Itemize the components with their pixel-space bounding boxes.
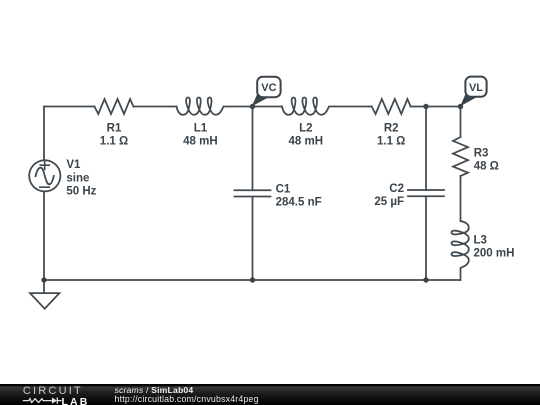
wire V1 top vertical (43, 107, 45, 161)
wire L2 to R2 (330, 106, 372, 108)
voltage source V1 (29, 160, 60, 191)
svg-text:VL: VL (469, 82, 483, 94)
logo wire with resistor and diode (0, 384, 100, 405)
svg-text:1.1 Ω: 1.1 Ω (377, 136, 405, 148)
svg-text:VC: VC (261, 82, 276, 94)
svg-text:284.5 nF: 284.5 nF (276, 197, 322, 209)
svg-text:L2: L2 (299, 122, 312, 134)
svg-text:25 µF: 25 µF (374, 196, 404, 208)
wire R2 to VL node (411, 106, 461, 108)
wire C2 to bottom (425, 196, 427, 280)
wire VL node down to R3 (460, 107, 462, 138)
node VL junction dot (458, 104, 463, 109)
CircuitLab logo LAB (62, 396, 90, 405)
ground junction dot (41, 277, 46, 282)
svg-text:1.1 Ω: 1.1 Ω (100, 136, 128, 148)
capacitor C2 (408, 190, 444, 196)
resistor R2 (372, 99, 411, 114)
flag VL (460, 77, 486, 107)
CircuitLab logo text CIRCUIT (23, 385, 83, 397)
junction dot C2 bottom (423, 277, 428, 282)
inductor L2 (282, 98, 329, 115)
logo diode (52, 397, 57, 403)
wire bottom horizontal (44, 279, 461, 281)
inductor L1 (177, 98, 224, 115)
ground (43, 280, 45, 293)
svg-text:L3: L3 (474, 234, 487, 246)
svg-text:48 mH: 48 mH (183, 136, 218, 148)
capacitor C1 (235, 190, 271, 196)
svg-text:48 Ω: 48 Ω (474, 161, 499, 173)
junction dot C1 bottom (250, 277, 255, 282)
node VC junction dot (250, 104, 255, 109)
wire R1 to L1 (133, 106, 176, 108)
svg-text:R3: R3 (474, 147, 489, 159)
svg-text:sine: sine (66, 172, 89, 184)
resistor R1 (94, 99, 133, 114)
wire VC node down to C1 (252, 107, 254, 191)
wire node down to C2 (425, 107, 427, 191)
svg-text:V1: V1 (66, 159, 81, 171)
wire L3 to bottom (460, 269, 462, 280)
svg-text:C1: C1 (276, 183, 291, 195)
svg-text:R2: R2 (384, 122, 399, 134)
attribution text (115, 385, 194, 395)
inductor L3 (452, 221, 469, 268)
bottom attribution bar (0, 384, 540, 405)
svg-text:200 mH: 200 mH (474, 248, 515, 260)
svg-text:C2: C2 (389, 183, 404, 195)
svg-text:R1: R1 (107, 122, 122, 134)
wire L1 to L2 through node VC (224, 106, 282, 108)
resistor R3 (453, 137, 468, 176)
svg-text:L1: L1 (194, 122, 208, 134)
svg-text:48 mH: 48 mH (289, 136, 324, 148)
wire R3 to L3 (460, 176, 462, 221)
logo resistor zigzag (23, 399, 52, 403)
wire top-left horizontal (44, 106, 94, 108)
flag VC (252, 77, 281, 107)
node junction dot at C2 top (423, 104, 428, 109)
wire C1 to bottom (252, 197, 254, 281)
svg-text:50 Hz: 50 Hz (66, 186, 96, 198)
wire V1 bottom vertical (43, 191, 45, 280)
